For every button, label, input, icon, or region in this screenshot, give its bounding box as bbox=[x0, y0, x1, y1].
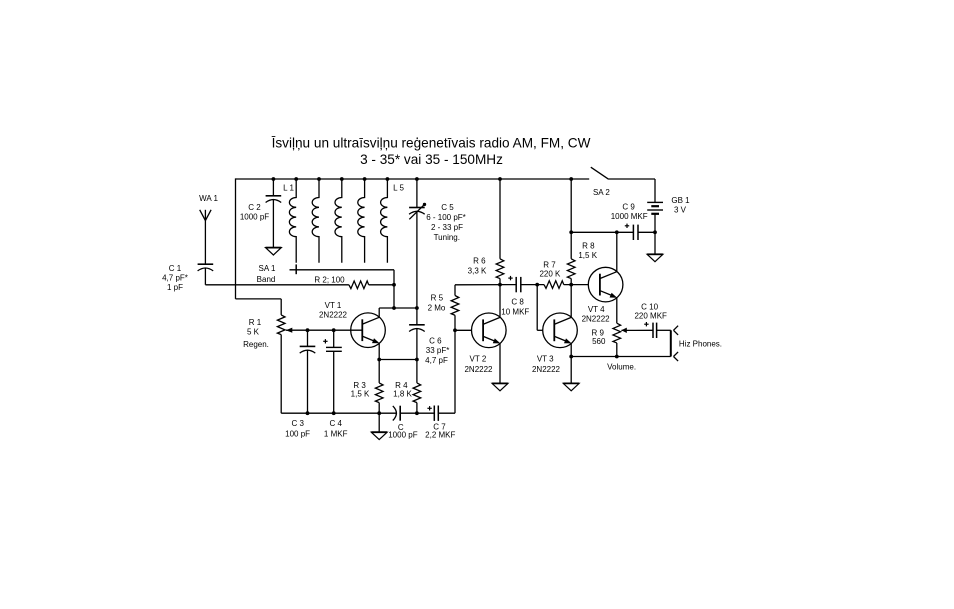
svg-text:2N2222: 2N2222 bbox=[319, 311, 348, 320]
svg-text:10 MKF: 10 MKF bbox=[501, 308, 529, 317]
antenna WA1 bbox=[204, 210, 206, 264]
svg-text:R 5: R 5 bbox=[431, 294, 444, 303]
node collector VT4 bbox=[615, 230, 619, 234]
wire bbox=[378, 343, 380, 359]
wire bbox=[393, 285, 395, 308]
wire bbox=[204, 268, 206, 285]
wire bbox=[564, 284, 589, 286]
capacitor C1 bbox=[198, 263, 214, 265]
svg-text:2N2222: 2N2222 bbox=[532, 365, 561, 374]
wire bbox=[616, 343, 618, 357]
wire bbox=[307, 330, 309, 346]
node base VT1 bbox=[332, 328, 336, 332]
node C9 wire bbox=[569, 230, 573, 234]
svg-text:GB 1: GB 1 bbox=[671, 196, 690, 205]
svg-text:WA 1: WA 1 bbox=[199, 194, 218, 203]
wire bbox=[378, 308, 380, 317]
capacitor C8 bbox=[515, 277, 517, 292]
wire bbox=[454, 330, 456, 413]
wire bbox=[378, 413, 380, 432]
svg-text:2 - 33 pF: 2 - 33 pF bbox=[431, 223, 463, 232]
capacitor C7 bbox=[433, 406, 435, 421]
svg-text:100 pF: 100 pF bbox=[285, 430, 310, 439]
svg-text:VT 4: VT 4 bbox=[588, 305, 605, 314]
node battery node bbox=[653, 230, 657, 234]
capacitor C6 bbox=[409, 324, 425, 326]
wire bbox=[236, 298, 282, 300]
inductor L5 bbox=[381, 179, 388, 263]
wire bbox=[499, 279, 501, 285]
svg-text:VT 1: VT 1 bbox=[325, 301, 342, 310]
wire bbox=[609, 178, 655, 180]
svg-text:R 6: R 6 bbox=[473, 257, 486, 266]
potentiometer R9 bbox=[613, 323, 621, 343]
wire bbox=[570, 179, 572, 259]
svg-text:C 9: C 9 bbox=[622, 203, 635, 212]
svg-text:Band: Band bbox=[257, 275, 276, 284]
node emitter VT1 bbox=[415, 358, 419, 362]
node top rail bbox=[363, 177, 367, 181]
potentiometer R1 bbox=[277, 315, 285, 335]
wire bbox=[570, 285, 572, 318]
svg-text:1 MKF: 1 MKF bbox=[324, 430, 348, 439]
svg-text:2 Mo: 2 Mo bbox=[428, 303, 446, 312]
node top rail bbox=[498, 177, 502, 181]
wire bbox=[638, 231, 655, 233]
node R2 node bbox=[392, 283, 396, 287]
svg-text:SA 1: SA 1 bbox=[259, 264, 276, 273]
wire bbox=[521, 284, 544, 286]
node base VT4 bbox=[569, 283, 573, 287]
node top rail bbox=[272, 177, 276, 181]
node base VT1 bbox=[306, 328, 310, 332]
wire bbox=[416, 211, 418, 324]
wire bbox=[570, 279, 572, 285]
wire bbox=[571, 231, 633, 233]
wire bbox=[616, 298, 618, 323]
wire bbox=[280, 299, 282, 315]
wire bbox=[499, 285, 501, 318]
wire bbox=[499, 344, 501, 384]
svg-text:1,5 K: 1,5 K bbox=[578, 251, 597, 260]
svg-text:2N2222: 2N2222 bbox=[582, 315, 611, 324]
node collector VT2 bbox=[498, 283, 502, 287]
node emitter VT1 bbox=[377, 358, 381, 362]
svg-text:R 8: R 8 bbox=[582, 241, 595, 250]
svg-text:VT 3: VT 3 bbox=[537, 355, 554, 364]
svg-text:560: 560 bbox=[592, 337, 606, 346]
resistor R8 bbox=[567, 259, 575, 279]
wire bbox=[379, 359, 417, 361]
wire bbox=[416, 179, 418, 208]
svg-text:C 3: C 3 bbox=[291, 419, 304, 428]
svg-text:SA 2: SA 2 bbox=[593, 188, 610, 197]
svg-text:L 1: L 1 bbox=[283, 184, 294, 193]
switch SA2 bbox=[591, 167, 609, 179]
svg-text:1000 pF: 1000 pF bbox=[388, 431, 417, 440]
wire bbox=[236, 178, 590, 180]
wire bbox=[499, 179, 501, 259]
svg-text:1000 pF: 1000 pF bbox=[240, 213, 269, 222]
svg-text:C 1: C 1 bbox=[169, 264, 182, 273]
resistor R5 bbox=[451, 296, 459, 316]
node top rail bbox=[294, 177, 298, 181]
wire bbox=[281, 412, 396, 414]
resistor R4 bbox=[413, 383, 421, 403]
svg-text:VT 2: VT 2 bbox=[470, 355, 487, 364]
capacitor C3 bbox=[300, 345, 316, 347]
svg-text:4,7 pF: 4,7 pF bbox=[425, 356, 448, 365]
wire bbox=[272, 200, 274, 248]
capacitor C4 bbox=[326, 346, 342, 348]
node base VT3 tap bbox=[535, 283, 539, 287]
wire bbox=[378, 403, 380, 414]
wire bbox=[379, 307, 417, 309]
node collector VT1 bbox=[415, 306, 419, 310]
wire bbox=[272, 179, 274, 196]
wire bbox=[416, 403, 418, 414]
wire bbox=[286, 329, 363, 331]
node bottom rail bbox=[377, 411, 381, 415]
ground (R3) bbox=[371, 432, 387, 439]
svg-text:3 - 35* vai 35 - 150MHz: 3 - 35* vai 35 - 150MHz bbox=[360, 152, 503, 167]
svg-text:5 K: 5 K bbox=[247, 328, 260, 337]
wire bbox=[378, 360, 380, 383]
wire bbox=[369, 284, 394, 286]
node top rail bbox=[340, 177, 344, 181]
node R9 bottom bbox=[615, 355, 619, 359]
wire bbox=[280, 335, 282, 414]
ground (C2) bbox=[266, 248, 282, 255]
svg-text:1,8 K: 1,8 K bbox=[393, 390, 412, 399]
svg-text:4,7 pF*: 4,7 pF* bbox=[162, 274, 188, 283]
capacitor C2 bbox=[266, 195, 282, 197]
node emitter VT3 bbox=[569, 355, 573, 359]
svg-text:L 5: L 5 bbox=[393, 184, 404, 193]
wire bbox=[333, 330, 335, 347]
wire bbox=[205, 284, 349, 286]
wire bbox=[536, 285, 538, 331]
capacitor C9 bbox=[632, 225, 634, 240]
svg-text:C 5: C 5 bbox=[441, 203, 454, 212]
transistor VT3 bbox=[543, 313, 578, 348]
svg-text:33 pF*: 33 pF* bbox=[426, 346, 450, 355]
node bottom rail bbox=[415, 411, 419, 415]
svg-text:1,5 K: 1,5 K bbox=[351, 390, 370, 399]
svg-text:Volume.: Volume. bbox=[607, 363, 636, 372]
svg-text:2N2222: 2N2222 bbox=[464, 365, 493, 374]
switch SA1 bbox=[290, 269, 395, 271]
capacitor C (1000 pF) bbox=[393, 406, 397, 421]
svg-text:R 2; 100: R 2; 100 bbox=[314, 276, 345, 285]
wire bbox=[235, 178, 237, 299]
resistor R3 bbox=[375, 383, 383, 403]
wire bbox=[307, 350, 309, 413]
wire bbox=[621, 329, 653, 331]
svg-text:C 2: C 2 bbox=[248, 203, 261, 212]
wire bbox=[416, 360, 418, 383]
inductor L4 bbox=[358, 179, 365, 263]
ground (GB1) bbox=[647, 254, 663, 261]
wire bbox=[616, 232, 618, 271]
wire bbox=[455, 284, 516, 286]
svg-text:R 7: R 7 bbox=[543, 261, 556, 270]
node collector VT1 bbox=[392, 306, 396, 310]
svg-text:3,3 K: 3,3 K bbox=[468, 267, 487, 276]
wire bbox=[416, 329, 418, 360]
svg-text:C 10: C 10 bbox=[641, 303, 658, 312]
node bottom rail bbox=[332, 411, 336, 415]
svg-text:220 MKF: 220 MKF bbox=[634, 311, 667, 320]
wire bbox=[654, 179, 656, 202]
wire bbox=[333, 351, 335, 413]
svg-text:1000 MKF: 1000 MKF bbox=[611, 212, 648, 221]
svg-text:Regen.: Regen. bbox=[243, 340, 269, 349]
transistor VT1 bbox=[351, 313, 386, 348]
wire bbox=[571, 356, 671, 358]
svg-text:Īsviļņu un ultraīsviļņu reģene: Īsviļņu un ultraīsviļņu reģenetīvais rad… bbox=[272, 136, 591, 151]
ground (VT3) bbox=[563, 383, 579, 390]
node top rail bbox=[569, 177, 573, 181]
capacitor C10 bbox=[652, 323, 654, 338]
node top rail bbox=[415, 177, 419, 181]
node base VT2 bbox=[453, 328, 457, 332]
svg-text:6 - 100 pF*: 6 - 100 pF* bbox=[426, 213, 466, 222]
phones jack bbox=[670, 330, 672, 356]
node bottom rail bbox=[306, 411, 310, 415]
transistor VT2 bbox=[472, 313, 507, 348]
svg-text:1 pF: 1 pF bbox=[167, 283, 183, 292]
svg-text:Hiz Phones.: Hiz Phones. bbox=[679, 340, 722, 349]
svg-text:Tuning.: Tuning. bbox=[434, 233, 460, 242]
svg-text:3 V: 3 V bbox=[674, 206, 687, 215]
svg-text:R 1: R 1 bbox=[249, 318, 262, 327]
resistor R7 bbox=[544, 281, 564, 289]
svg-text:2,2 MKF: 2,2 MKF bbox=[425, 431, 455, 440]
battery GB1 bbox=[647, 201, 663, 203]
inductor L3 bbox=[335, 179, 342, 263]
svg-text:220 K: 220 K bbox=[539, 269, 561, 278]
wire bbox=[454, 285, 456, 296]
wire bbox=[438, 412, 455, 414]
wire bbox=[455, 329, 472, 331]
svg-text:C 8: C 8 bbox=[511, 298, 524, 307]
variable capacitor C5 bbox=[409, 207, 425, 209]
ground (VT2) bbox=[492, 383, 508, 390]
node top rail bbox=[317, 177, 321, 181]
resistor R6 bbox=[496, 259, 504, 279]
inductor L1 bbox=[289, 179, 296, 263]
svg-text:C 6: C 6 bbox=[429, 337, 442, 346]
wire bbox=[454, 315, 456, 330]
wire bbox=[570, 344, 572, 384]
wire bbox=[401, 412, 434, 414]
resistor R2 bbox=[349, 281, 369, 289]
node top rail bbox=[386, 177, 390, 181]
wire bbox=[654, 214, 656, 255]
transistor VT4 bbox=[588, 267, 623, 302]
wire bbox=[657, 329, 671, 331]
wire bbox=[537, 329, 543, 331]
inductor L2 bbox=[312, 179, 319, 263]
svg-text:C 4: C 4 bbox=[329, 419, 342, 428]
